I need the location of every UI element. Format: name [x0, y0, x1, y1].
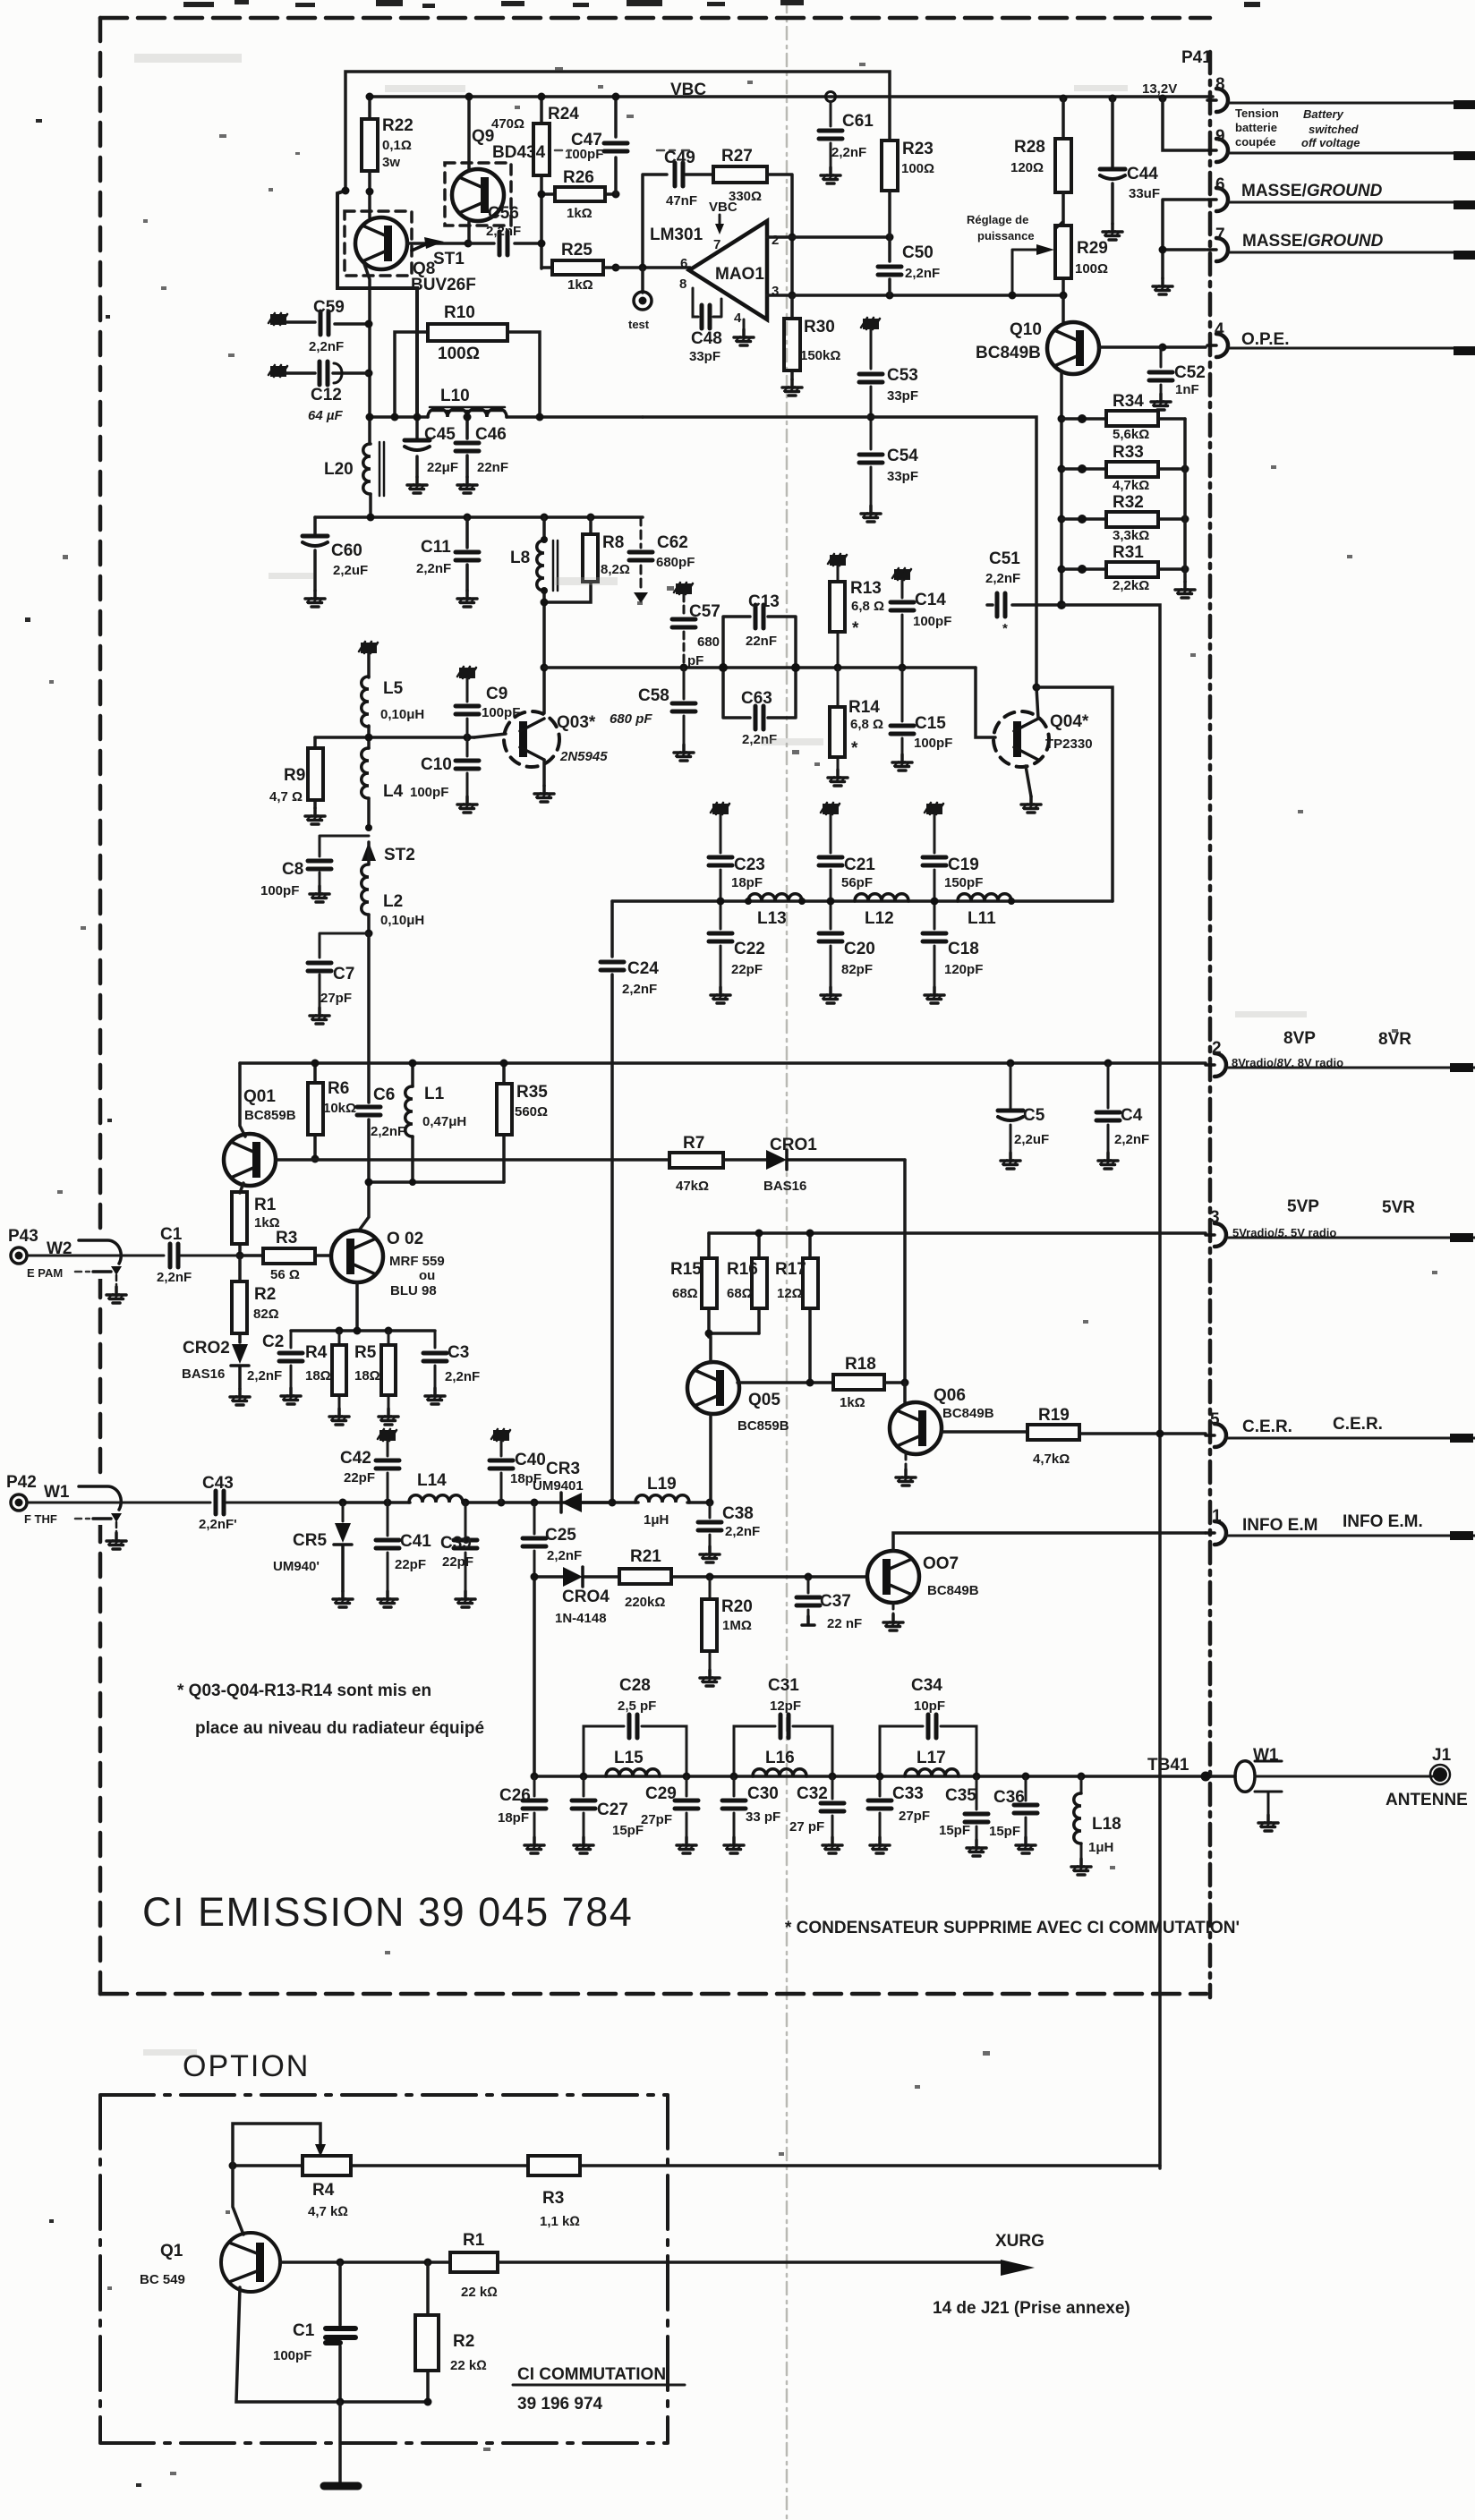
capacitor C15	[901, 668, 904, 754]
svg-text:2: 2	[1212, 1039, 1222, 1058]
svg-text:18Ω: 18Ω	[305, 1368, 331, 1383]
svg-text:R23: R23	[902, 140, 934, 158]
inductor L2	[362, 864, 369, 915]
resistor R34	[1061, 417, 1185, 421]
svg-text:C29: C29	[645, 1784, 677, 1803]
transistor Q04	[976, 668, 995, 737]
XURG arrow	[1001, 2260, 1035, 2276]
svg-text:4,7kΩ: 4,7kΩ	[1033, 1452, 1070, 1467]
svg-text:4,7kΩ: 4,7kΩ	[1113, 478, 1149, 493]
svg-text:R26: R26	[563, 168, 594, 187]
svg-text:batterie: batterie	[1235, 121, 1277, 134]
node R15/R16 tie	[709, 1333, 759, 1337]
svg-text:100pF: 100pF	[914, 736, 952, 751]
svg-text:6: 6	[680, 256, 687, 271]
svg-text:test: test	[628, 318, 650, 331]
resistor R18	[833, 1375, 884, 1390]
svg-text:8VR: 8VR	[1378, 1030, 1411, 1049]
svg-text:680: 680	[697, 634, 720, 650]
resistor R9	[313, 737, 317, 808]
svg-text:C59: C59	[313, 298, 345, 317]
svg-text:22 nF: 22 nF	[827, 1616, 862, 1631]
svg-text:1μH: 1μH	[644, 1512, 669, 1528]
svg-text:5VR: 5VR	[1382, 1198, 1415, 1217]
svg-text:C38: C38	[722, 1504, 754, 1523]
capacitor C20	[819, 933, 842, 941]
svg-text:15pF: 15pF	[939, 1823, 970, 1838]
capacitor C41	[387, 1503, 389, 1591]
svg-text:100pF: 100pF	[260, 883, 299, 898]
svg-text:C.E.R.: C.E.R.	[1333, 1415, 1383, 1434]
svg-text:P42: P42	[6, 1473, 37, 1492]
wire pin7 out	[1227, 251, 1475, 254]
diode CR5	[342, 1503, 345, 1521]
svg-text:1: 1	[1212, 1507, 1222, 1526]
svg-text:* CONDENSATEUR SUPPRIME AVEC: * CONDENSATEUR SUPPRIME AVEC CI COMMUTAT…	[785, 1919, 1240, 1937]
resistor R21	[619, 1569, 671, 1584]
capacitor C10	[466, 737, 469, 796]
outer dashed border top	[100, 16, 1210, 21]
wire Q04 collector	[1036, 687, 1038, 719]
svg-text:BAS16: BAS16	[763, 1179, 806, 1194]
svg-text:2,2nF': 2,2nF'	[199, 1517, 237, 1532]
svg-text:3,3kΩ: 3,3kΩ	[1113, 528, 1149, 543]
svg-text:BC859B: BC859B	[737, 1418, 789, 1434]
node base line y824	[315, 736, 474, 739]
svg-text:Q03*: Q03*	[557, 713, 596, 732]
capacitor C19	[925, 803, 943, 814]
wire R22 top lead	[368, 97, 371, 119]
wire top loop from Q8 box to R23	[345, 72, 890, 191]
wire pin3 line	[767, 294, 1063, 297]
svg-text:33pF: 33pF	[887, 388, 918, 404]
wire L2 chain continues down to Q02	[359, 933, 369, 1230]
resistor R24	[540, 97, 543, 268]
transistor Q1	[233, 2166, 243, 2235]
svg-text:R4: R4	[305, 1343, 328, 1362]
faint gray smudge bands	[134, 54, 1307, 2056]
svg-text:2,2nF: 2,2nF	[157, 1270, 192, 1285]
svg-text:L16: L16	[765, 1749, 795, 1767]
svg-text:C34: C34	[911, 1676, 942, 1695]
svg-text:C15: C15	[915, 714, 946, 733]
resistor R5	[388, 1331, 390, 1409]
capacitor C38	[709, 1503, 712, 1546]
resistor R15	[707, 1233, 711, 1333]
capacitor C21	[821, 803, 840, 814]
svg-text:56 Ω: 56 Ω	[270, 1267, 300, 1282]
svg-text:R20: R20	[721, 1597, 753, 1616]
svg-text:R19: R19	[1038, 1406, 1070, 1425]
svg-text:C7: C7	[333, 965, 354, 983]
svg-text:7: 7	[1215, 226, 1225, 244]
svg-text:6,8 Ω: 6,8 Ω	[850, 717, 883, 732]
svg-text:2,2nF: 2,2nF	[416, 561, 451, 576]
svg-text:8: 8	[1215, 75, 1225, 94]
svg-text:27 pF: 27 pF	[789, 1819, 824, 1835]
svg-text:C12: C12	[311, 386, 342, 404]
svg-text:R28: R28	[1014, 138, 1045, 157]
svg-text:4,7 kΩ: 4,7 kΩ	[308, 2204, 348, 2219]
svg-text:MAO1: MAO1	[715, 265, 764, 284]
svg-text:BC849B: BC849B	[976, 344, 1041, 362]
svg-text:BLU 98: BLU 98	[390, 1283, 437, 1298]
capacitor C60	[313, 517, 317, 591]
svg-text:12pF: 12pF	[770, 1698, 801, 1714]
svg-text:R1: R1	[463, 2231, 485, 2250]
svg-text:2,2nF: 2,2nF	[547, 1548, 582, 1563]
svg-text:68Ω: 68Ω	[727, 1286, 753, 1301]
svg-text:CR3: CR3	[546, 1460, 580, 1478]
capacitor C40	[491, 1429, 510, 1441]
svg-text:5: 5	[1210, 1410, 1220, 1429]
svg-text:C56: C56	[488, 204, 519, 223]
svg-text:22nF: 22nF	[477, 460, 508, 475]
capacitor C3	[434, 1331, 437, 1388]
outer dashed border bottom	[100, 1992, 1206, 1996]
capacitor C37	[805, 1573, 813, 1581]
svg-text:2,2nF: 2,2nF	[622, 982, 657, 997]
transistor Q03	[474, 734, 506, 737]
svg-text:BAS16: BAS16	[182, 1366, 225, 1382]
svg-text:33uF: 33uF	[1129, 186, 1160, 201]
inductor L4	[362, 748, 369, 798]
svg-text:C.E.R.: C.E.R.	[1242, 1417, 1292, 1436]
svg-text:BD434: BD434	[492, 143, 546, 162]
svg-text:18Ω: 18Ω	[354, 1368, 380, 1383]
svg-text:10kΩ: 10kΩ	[323, 1101, 356, 1116]
wire Q8 module box	[337, 191, 417, 417]
svg-text:8Vradio/8V. 8V radio: 8Vradio/8V. 8V radio	[1232, 1056, 1343, 1069]
wire Q05 emitter down	[709, 1414, 712, 1503]
capacitor C33	[879, 1776, 882, 1837]
resistor R2	[238, 1256, 242, 1342]
capacitor C48	[693, 288, 721, 317]
capacitor C61	[826, 92, 836, 102]
wire Q9 collector to VBC	[467, 97, 471, 170]
svg-text:puissance: puissance	[977, 229, 1035, 243]
inductor L17	[905, 1769, 959, 1776]
svg-text:150pF: 150pF	[944, 875, 983, 890]
transistor Q02	[331, 1230, 383, 1282]
svg-text:120pF: 120pF	[944, 962, 983, 977]
svg-text:C27: C27	[597, 1801, 628, 1819]
svg-text:E PAM: E PAM	[27, 1266, 63, 1280]
svg-text:R22: R22	[382, 116, 414, 135]
border gap at W2	[90, 1232, 108, 1279]
svg-text:C11: C11	[421, 538, 451, 557]
svg-text:C45: C45	[424, 425, 456, 444]
svg-text:off voltage: off voltage	[1301, 136, 1360, 149]
svg-text:R35: R35	[516, 1083, 548, 1102]
test point	[641, 268, 644, 293]
svg-text:R31: R31	[1113, 543, 1144, 562]
svg-text:5,6kΩ: 5,6kΩ	[1113, 427, 1149, 442]
svg-text:100Ω: 100Ω	[438, 345, 480, 363]
svg-text:P41: P41	[1181, 48, 1212, 67]
svg-text:C46: C46	[475, 425, 507, 444]
svg-text:2,2kΩ: 2,2kΩ	[1113, 578, 1149, 593]
svg-text:L10: L10	[440, 387, 470, 405]
capacitor C46	[465, 417, 469, 477]
svg-text:CRO1: CRO1	[770, 1136, 817, 1154]
wiper Reglage arrow	[1012, 250, 1038, 295]
svg-text:Q06: Q06	[934, 1386, 966, 1405]
outer dashed border left	[98, 18, 103, 1994]
inductor L11	[958, 894, 1011, 901]
resistor R10	[395, 332, 540, 417]
svg-text:Battery: Battery	[1303, 107, 1344, 121]
svg-text:OO7: OO7	[923, 1554, 959, 1573]
svg-text:C3: C3	[448, 1343, 469, 1362]
svg-text:L13: L13	[757, 909, 787, 928]
svg-text:CRO4: CRO4	[562, 1588, 610, 1606]
capacitor C50	[888, 237, 891, 295]
svg-text:10pF: 10pF	[914, 1698, 945, 1714]
capacitor C56	[468, 242, 543, 245]
svg-text:MASSE/GROUND: MASSE/GROUND	[1242, 232, 1384, 251]
svg-text:2,2nF: 2,2nF	[309, 339, 344, 354]
svg-text:L18: L18	[1092, 1815, 1121, 1834]
resistor R17	[808, 1233, 812, 1383]
svg-text:ANTENNE: ANTENNE	[1385, 1791, 1468, 1809]
wire pin6/7 ground drop	[1163, 200, 1206, 278]
svg-text:R17: R17	[775, 1260, 806, 1279]
resistor R4	[338, 1331, 341, 1409]
svg-text:680pF: 680pF	[656, 555, 695, 570]
capacitor C23	[711, 803, 729, 814]
capacitor C36	[1022, 1773, 1030, 1781]
strap ST1 arrow	[407, 242, 466, 245]
svg-text:L20: L20	[324, 460, 354, 479]
svg-text:R10: R10	[444, 303, 475, 322]
svg-text:LM301: LM301	[650, 226, 703, 244]
svg-text:O.P.E.: O.P.E.	[1241, 330, 1290, 349]
inductor L19	[635, 1495, 689, 1503]
P41 / TB41 dash-dot connector line	[1208, 52, 1213, 1997]
svg-text:C13: C13	[748, 592, 780, 611]
svg-text:Q04*: Q04*	[1050, 712, 1089, 731]
svg-text:47kΩ: 47kΩ	[676, 1179, 709, 1194]
svg-text:BC 549: BC 549	[140, 2272, 185, 2287]
resistor R35	[502, 1063, 506, 1182]
svg-text:6,8 Ω: 6,8 Ω	[851, 599, 884, 614]
svg-text:R2: R2	[453, 2332, 474, 2351]
svg-text:MASSE/GROUND: MASSE/GROUND	[1241, 182, 1383, 200]
svg-text:15pF: 15pF	[989, 1824, 1020, 1839]
svg-text:2,2nF: 2,2nF	[985, 571, 1020, 586]
svg-text:2,2nF: 2,2nF	[445, 1369, 480, 1384]
svg-text:2,2nF: 2,2nF	[725, 1524, 760, 1539]
svg-text:CI COMMUTATION: CI COMMUTATION	[517, 2365, 666, 2384]
svg-text:0,10μH: 0,10μH	[380, 913, 424, 928]
resistor R2 option	[426, 2262, 430, 2402]
svg-text:C37: C37	[820, 1592, 851, 1611]
svg-text:*: *	[851, 739, 858, 758]
svg-text:C5: C5	[1023, 1106, 1045, 1125]
svg-text:33pF: 33pF	[887, 469, 918, 484]
svg-text:8,2Ω: 8,2Ω	[601, 562, 630, 577]
svg-text:18pF: 18pF	[498, 1810, 529, 1826]
resistor R27	[713, 166, 767, 183]
resistor R19	[942, 1432, 1206, 1434]
svg-text:2,2nF: 2,2nF	[247, 1368, 282, 1383]
capacitor C25	[533, 1503, 536, 1577]
resistor R16	[757, 1233, 761, 1333]
svg-text:C25: C25	[545, 1526, 576, 1545]
resistor R1	[450, 2252, 498, 2272]
svg-text:TB41: TB41	[1147, 1756, 1189, 1775]
svg-text:C10: C10	[421, 755, 452, 774]
capacitor C43	[216, 1491, 224, 1514]
svg-text:13,2V: 13,2V	[1142, 81, 1177, 97]
node rail y466 right portion, corner down x1158	[643, 417, 1036, 687]
svg-text:22 kΩ: 22 kΩ	[450, 2358, 487, 2373]
svg-text:1kΩ: 1kΩ	[840, 1395, 865, 1410]
svg-text:R25: R25	[561, 241, 593, 260]
resistor R6	[313, 1063, 317, 1159]
svg-text:2,2uF: 2,2uF	[333, 563, 368, 578]
svg-text:22pF: 22pF	[731, 962, 763, 977]
svg-text:Réglage de: Réglage de	[967, 213, 1028, 226]
svg-text:C22: C22	[734, 940, 765, 958]
inductor L13	[748, 894, 802, 901]
svg-text:68Ω: 68Ω	[672, 1286, 698, 1301]
svg-text:R2: R2	[254, 1285, 276, 1304]
svg-text:33pF: 33pF	[689, 349, 720, 364]
svg-text:1kΩ: 1kΩ	[567, 206, 593, 221]
transistor Q07	[867, 1551, 919, 1603]
node 8V rail	[240, 1061, 1206, 1065]
svg-text:C53: C53	[887, 366, 918, 385]
capacitor C1 option	[338, 2262, 342, 2402]
svg-text:C28: C28	[619, 1676, 651, 1695]
svg-text:150kΩ: 150kΩ	[800, 348, 840, 363]
svg-text:2,2nF: 2,2nF	[1114, 1132, 1149, 1147]
svg-text:C57: C57	[689, 602, 720, 621]
capacitor C27	[583, 1776, 585, 1837]
node antenna rail y1985	[534, 1775, 1235, 1778]
svg-text:BC849B: BC849B	[942, 1406, 994, 1421]
svg-text:W1: W1	[44, 1483, 70, 1502]
node input junction	[236, 1252, 244, 1260]
capacitor C47	[614, 97, 618, 194]
svg-text:L14: L14	[417, 1471, 447, 1490]
wire Q1 emitter bottom rail	[236, 2287, 428, 2402]
svg-text:R33: R33	[1113, 443, 1144, 462]
left margin specks	[25, 119, 141, 2487]
scan fold line	[786, 0, 789, 2520]
svg-text:5Vradio/5. 5V radio: 5Vradio/5. 5V radio	[1232, 1226, 1336, 1239]
svg-text:12Ω: 12Ω	[777, 1286, 803, 1301]
svg-text:1nF: 1nF	[1175, 382, 1199, 397]
capacitor C11	[465, 517, 469, 591]
svg-text:2,5 pF: 2,5 pF	[618, 1698, 656, 1714]
svg-text:BC859B: BC859B	[244, 1108, 296, 1123]
svg-text:L1: L1	[424, 1085, 445, 1103]
resistor R7	[669, 1153, 723, 1168]
svg-text:C31: C31	[768, 1676, 799, 1695]
capacitor C44	[1111, 98, 1114, 224]
svg-text:C24: C24	[627, 959, 659, 978]
svg-text:C52: C52	[1174, 363, 1206, 382]
ground op-amp pin4	[743, 319, 746, 329]
svg-text:L15: L15	[614, 1749, 644, 1767]
svg-text:R7: R7	[683, 1134, 704, 1153]
resistor R23	[882, 140, 898, 191]
wire Q05 base line	[737, 1381, 833, 1384]
svg-text:560Ω: 560Ω	[515, 1104, 548, 1120]
svg-text:R27: R27	[721, 147, 753, 166]
svg-text:8: 8	[679, 277, 686, 292]
node 5V rail pin3	[709, 1231, 1206, 1235]
potentiometer R29	[1061, 192, 1065, 295]
inductor L1	[411, 1063, 414, 1182]
svg-text:* Q03-Q04-R13-R14 sont mis en: * Q03-Q04-R13-R14 sont mis en	[177, 1681, 431, 1700]
svg-text:2,2nF: 2,2nF	[486, 224, 521, 239]
svg-text:33 pF: 33 pF	[746, 1809, 780, 1825]
resistor R20	[706, 1573, 714, 1581]
resistor R32	[1061, 517, 1185, 521]
resistor R26	[541, 192, 616, 196]
svg-text:R3: R3	[542, 2189, 564, 2208]
svg-text:22nF: 22nF	[746, 634, 777, 649]
svg-text:coupée: coupée	[1235, 135, 1276, 149]
resistor R3	[240, 1254, 331, 1257]
transistor Q10	[1061, 295, 1065, 323]
svg-text:18pF: 18pF	[731, 875, 763, 890]
svg-text:R16: R16	[727, 1260, 758, 1279]
svg-text:C49: C49	[664, 149, 695, 167]
svg-text:Q05: Q05	[748, 1391, 780, 1409]
svg-text:R5: R5	[354, 1343, 377, 1362]
node rail y746	[544, 666, 976, 669]
capacitor C2	[290, 1331, 293, 1388]
svg-text:2,2nF: 2,2nF	[831, 145, 866, 160]
svg-text:100Ω: 100Ω	[1075, 261, 1108, 277]
svg-text:UM9401: UM9401	[533, 1478, 584, 1494]
capacitor C1	[170, 1244, 178, 1267]
svg-text:R3: R3	[276, 1229, 297, 1247]
wire L8 node down to Q03 collector	[542, 602, 546, 713]
svg-text:C61: C61	[842, 112, 874, 131]
svg-text:Tension: Tension	[1235, 106, 1279, 120]
svg-text:R13: R13	[850, 579, 882, 598]
top edge scan marks	[183, 0, 1260, 8]
diode CR04	[563, 1567, 583, 1587]
capacitor C22	[709, 933, 732, 941]
capacitor C13 C63 input bracket	[721, 617, 796, 718]
capacitor C29	[686, 1776, 688, 1837]
svg-text:VBC: VBC	[670, 81, 706, 99]
svg-text:27pF: 27pF	[899, 1809, 930, 1824]
svg-text:120Ω: 120Ω	[1010, 160, 1044, 175]
svg-text:*: *	[852, 619, 859, 638]
svg-text:L4: L4	[383, 782, 404, 801]
svg-text:C43: C43	[202, 1474, 234, 1493]
svg-text:L2: L2	[383, 892, 403, 911]
svg-text:0,10μH: 0,10μH	[380, 707, 424, 722]
resistor R8	[544, 517, 591, 602]
svg-text:Q1: Q1	[160, 2242, 183, 2260]
svg-text:L19: L19	[647, 1475, 677, 1494]
strap ST2	[365, 824, 372, 831]
wire pin6 loop	[616, 175, 690, 268]
wire C51 node to long vertical x1296	[1061, 605, 1160, 2168]
svg-text:C62: C62	[657, 533, 688, 552]
wire Q03 emitter ground	[542, 760, 546, 786]
capacitor C39	[465, 1503, 467, 1591]
